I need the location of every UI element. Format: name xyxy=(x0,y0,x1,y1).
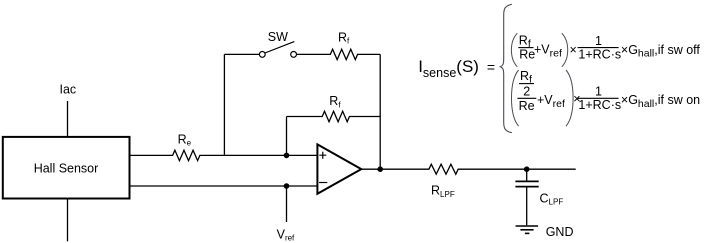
svg-text:Vref: Vref xyxy=(277,227,295,242)
junction dot minus input xyxy=(284,183,290,189)
wire SW branch top left segment xyxy=(224,53,259,55)
wire Iac input vertical xyxy=(67,101,69,136)
wire Vref vertical xyxy=(286,186,288,222)
svg-text:Hall Sensor: Hall Sensor xyxy=(34,162,99,176)
svg-text:×Ghall,if sw off: ×Ghall,if sw off xyxy=(621,43,701,60)
wire second feedback branch vertical xyxy=(286,117,288,156)
formula case2 fraction Rf over 2 over Re xyxy=(517,69,536,113)
svg-text:GND: GND xyxy=(546,225,574,239)
formula case1 fraction Rf/Re xyxy=(518,33,535,61)
svg-text:SW: SW xyxy=(268,30,288,44)
svg-text:1+RC·s: 1+RC·s xyxy=(578,98,621,112)
formula case2 fraction 1 over 1+RCs xyxy=(578,85,622,113)
svg-text:Rf: Rf xyxy=(329,94,341,109)
svg-text:RLPF: RLPF xyxy=(431,184,455,199)
svg-text:1: 1 xyxy=(595,85,602,99)
wire hall sensor bottom stub xyxy=(67,200,69,242)
wire feedback left vertical (SW branch) xyxy=(223,54,225,155)
svg-text:CLPF: CLPF xyxy=(540,192,564,207)
formula case2 left paren xyxy=(512,70,519,126)
ground xyxy=(516,226,539,233)
svg-text:1+RC·s: 1+RC·s xyxy=(578,48,621,62)
svg-text:Iac: Iac xyxy=(60,83,77,97)
wire hall bottom output to op-amp minus input xyxy=(131,185,318,187)
svg-text:Re: Re xyxy=(519,48,535,62)
svg-text:×Ghall,if sw on: ×Ghall,if sw on xyxy=(621,93,700,110)
switch SW xyxy=(259,42,296,58)
svg-text:Re: Re xyxy=(519,99,535,113)
wire second feedback branch with resistor Rf2 xyxy=(287,111,381,121)
svg-text:2: 2 xyxy=(523,85,530,99)
formula case2 right paren xyxy=(566,70,573,126)
Hall Sensor block xyxy=(3,137,130,199)
svg-text:Isense(S)=: Isense(S)= xyxy=(418,57,495,80)
svg-text:1: 1 xyxy=(595,34,602,48)
svg-text:+Vref: +Vref xyxy=(534,43,562,60)
svg-text:×: × xyxy=(570,43,577,57)
formula case1 right paren xyxy=(562,33,568,67)
wire feedback right vertical to output xyxy=(379,54,381,169)
junction dot plus input xyxy=(284,153,290,159)
svg-text:+Vref: +Vref xyxy=(537,93,565,110)
capacitor CLPF xyxy=(515,169,538,225)
formula case1 fraction 1 over 1+RCs xyxy=(578,34,622,62)
svg-text:Rf: Rf xyxy=(520,69,532,86)
junction dot capacitor tap xyxy=(524,166,530,172)
formula big curly brace xyxy=(500,4,512,132)
wire op-amp output with resistor RLPF xyxy=(361,164,575,174)
svg-text:Rf: Rf xyxy=(338,31,350,46)
formula case1 left paren xyxy=(511,33,517,67)
junction dot op-amp output xyxy=(377,166,383,172)
op-amp U1 xyxy=(317,144,361,193)
wire hall top output to op-amp plus input with resistor Re xyxy=(131,150,318,160)
svg-text:Re: Re xyxy=(178,132,192,147)
wire SW to resistor Rf top and resistor Rf1 xyxy=(297,49,381,59)
